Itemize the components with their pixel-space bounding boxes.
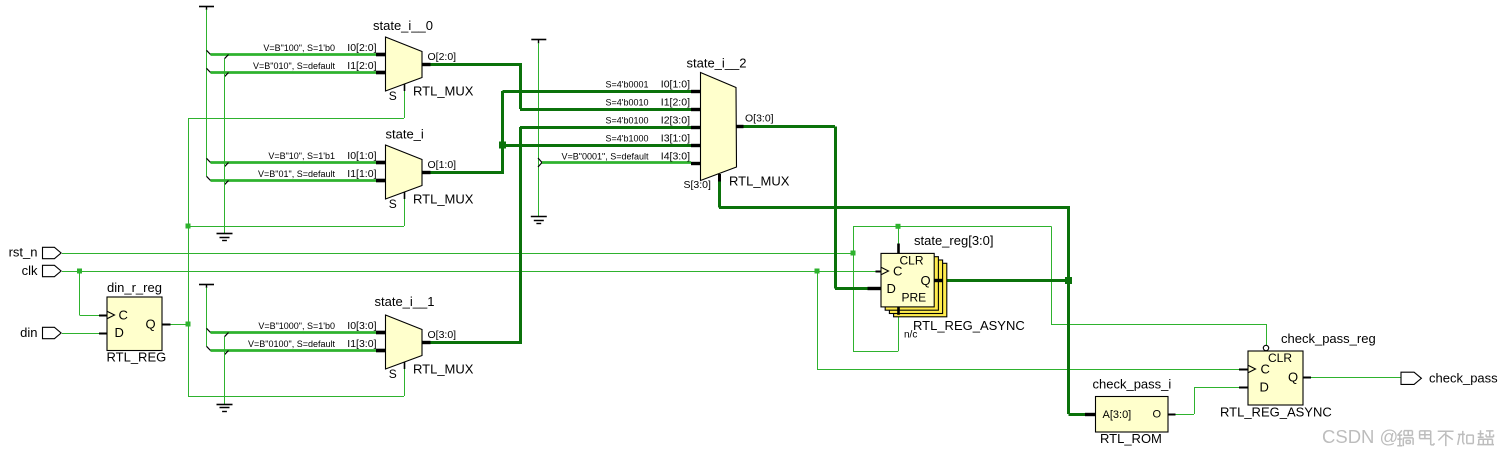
svg-text:I4[3:0]: I4[3:0] bbox=[661, 151, 690, 163]
svg-text:S: S bbox=[389, 197, 397, 211]
svg-text:RTL_MUX: RTL_MUX bbox=[413, 192, 474, 207]
svg-text:S=4'b0100: S=4'b0100 bbox=[605, 116, 648, 126]
svg-text:S=4'b1000: S=4'b1000 bbox=[605, 134, 648, 144]
svg-text:I0[2:0]: I0[2:0] bbox=[347, 42, 376, 54]
svg-text:V=B"0100", S=default: V=B"0100", S=default bbox=[248, 339, 335, 349]
svg-text:RTL_REG_ASYNC: RTL_REG_ASYNC bbox=[1220, 405, 1332, 420]
svg-text:S=4'b0010: S=4'b0010 bbox=[605, 98, 648, 108]
svg-text:O: O bbox=[1153, 409, 1162, 421]
svg-text:state_i__0: state_i__0 bbox=[373, 18, 433, 33]
svg-text:I1[1:0]: I1[1:0] bbox=[347, 168, 376, 180]
svg-text:S: S bbox=[389, 367, 397, 381]
svg-text:RTL_ROM: RTL_ROM bbox=[1100, 431, 1162, 446]
svg-text:I2[3:0]: I2[3:0] bbox=[661, 115, 690, 127]
svg-text:I0[3:0]: I0[3:0] bbox=[347, 320, 376, 332]
svg-text:RTL_MUX: RTL_MUX bbox=[729, 174, 790, 189]
svg-text:I1[2:0]: I1[2:0] bbox=[347, 60, 376, 72]
svg-text:CLR: CLR bbox=[1268, 351, 1292, 365]
svg-text:O[3:0]: O[3:0] bbox=[428, 329, 457, 341]
svg-text:V=B"100", S=1'b0: V=B"100", S=1'b0 bbox=[263, 43, 335, 53]
svg-text:PRE: PRE bbox=[902, 291, 927, 305]
svg-text:I3[1:0]: I3[1:0] bbox=[661, 133, 690, 145]
svg-text:V=B"10", S=1'b1: V=B"10", S=1'b1 bbox=[268, 151, 335, 161]
svg-text:V=B"1000", S=1'b0: V=B"1000", S=1'b0 bbox=[258, 321, 335, 331]
svg-text:state_reg[3:0]: state_reg[3:0] bbox=[914, 233, 994, 248]
svg-text:RTL_MUX: RTL_MUX bbox=[413, 84, 474, 99]
svg-text:CLR: CLR bbox=[900, 254, 924, 268]
svg-text:O[1:0]: O[1:0] bbox=[428, 159, 457, 171]
svg-text:I1[3:0]: I1[3:0] bbox=[347, 338, 376, 350]
svg-text:C: C bbox=[119, 308, 128, 323]
svg-text:RTL_REG_ASYNC: RTL_REG_ASYNC bbox=[913, 318, 1025, 333]
svg-text:V=B"0001", S=default: V=B"0001", S=default bbox=[562, 152, 649, 162]
svg-text:C: C bbox=[1261, 362, 1270, 377]
svg-text:din_r_reg: din_r_reg bbox=[107, 280, 162, 295]
svg-text:check_pass_reg: check_pass_reg bbox=[1281, 331, 1376, 346]
svg-text:D: D bbox=[115, 325, 124, 340]
svg-text:RTL_MUX: RTL_MUX bbox=[413, 362, 474, 377]
svg-text:D: D bbox=[1260, 380, 1269, 395]
svg-text:I0[1:0]: I0[1:0] bbox=[347, 150, 376, 162]
svg-text:check_pass: check_pass bbox=[1429, 371, 1498, 386]
svg-text:C: C bbox=[893, 264, 902, 279]
svg-text:I0[1:0]: I0[1:0] bbox=[661, 79, 690, 91]
svg-text:D: D bbox=[887, 281, 896, 296]
svg-text:CSDN @: CSDN @ bbox=[1322, 426, 1398, 447]
svg-text:Q: Q bbox=[146, 317, 156, 332]
svg-text:I1[2:0]: I1[2:0] bbox=[661, 97, 690, 109]
svg-text:Q: Q bbox=[1288, 370, 1298, 385]
svg-text:O[3:0]: O[3:0] bbox=[745, 113, 774, 125]
svg-text:state_i: state_i bbox=[386, 127, 424, 142]
svg-text:check_pass_i: check_pass_i bbox=[1093, 377, 1172, 392]
svg-text:clk: clk bbox=[22, 263, 38, 278]
svg-text:din: din bbox=[20, 325, 37, 340]
svg-text:S=4'b0001: S=4'b0001 bbox=[605, 80, 648, 90]
svg-text:V=B"01", S=default: V=B"01", S=default bbox=[258, 169, 335, 179]
svg-text:V=B"010", S=default: V=B"010", S=default bbox=[253, 61, 335, 71]
svg-text:rst_n: rst_n bbox=[9, 245, 38, 260]
svg-text:state_i__1: state_i__1 bbox=[375, 294, 435, 309]
svg-text:O[2:0]: O[2:0] bbox=[428, 51, 457, 63]
svg-text:RTL_REG: RTL_REG bbox=[107, 350, 167, 365]
svg-text:A[3:0]: A[3:0] bbox=[1103, 409, 1132, 421]
svg-text:S: S bbox=[389, 89, 397, 103]
svg-text:Q: Q bbox=[921, 273, 931, 288]
svg-text:n/c: n/c bbox=[904, 330, 917, 341]
svg-text:S[3:0]: S[3:0] bbox=[684, 179, 712, 191]
svg-text:state_i__2: state_i__2 bbox=[687, 56, 747, 71]
